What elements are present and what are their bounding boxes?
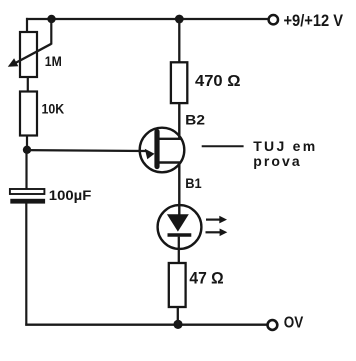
wire rail to resistor 470 <box>178 19 180 63</box>
wire resistor 47 to bottom rail <box>177 307 179 325</box>
svg-text:+9/+12 V: +9/+12 V <box>284 12 344 30</box>
node junction left <box>23 146 31 154</box>
resistor 47 body <box>169 263 186 307</box>
svg-text:10K: 10K <box>42 101 65 117</box>
potentiometer wiper diagonal <box>14 44 52 64</box>
LED light arrow upper head <box>219 216 227 224</box>
svg-text:prova: prova <box>253 153 300 169</box>
potentiometer wiper arrowhead <box>8 58 18 67</box>
UJT base bar <box>154 132 159 167</box>
wire left node down to capacitor <box>25 150 27 190</box>
LED cathode bar <box>168 233 192 236</box>
node junction bottom <box>173 320 182 329</box>
pointer line to label <box>202 145 244 147</box>
UJT base2 lead <box>157 103 180 139</box>
wire LED cathode down to resistor 47 <box>178 237 180 264</box>
svg-text:OV: OV <box>284 314 304 331</box>
terminal +9/+12V <box>269 15 278 24</box>
potentiometer 1M body <box>20 32 37 77</box>
LED light arrow lower line <box>206 231 221 233</box>
svg-text:1M: 1M <box>45 54 62 69</box>
transistor UJT circle <box>140 128 185 173</box>
wire wiper from rail junction <box>50 19 52 45</box>
UJT emitter arrowhead <box>145 149 155 160</box>
resistor 10K body <box>20 92 37 136</box>
wire bottom ground rail <box>25 324 266 326</box>
wire capacitor to bottom rail <box>25 203 27 326</box>
terminal 0V <box>268 320 278 330</box>
capacitor 100uF top plate <box>10 189 45 194</box>
LED circle <box>158 205 202 249</box>
capacitor 100uF bottom plate <box>10 199 45 204</box>
resistor 470 body <box>171 62 187 103</box>
wire emitter from left node <box>27 149 147 152</box>
node junction top-middle <box>175 15 184 24</box>
svg-text:B1: B1 <box>185 175 202 191</box>
LED anode triangle <box>167 214 189 231</box>
UJT base1 lead <box>157 163 180 216</box>
wire rail to potentiometer <box>26 18 28 33</box>
node junction top-left <box>47 15 55 23</box>
wire 10K to left node <box>26 136 28 151</box>
LED light arrow upper line <box>206 219 220 221</box>
wire top supply rail <box>26 18 269 20</box>
svg-text:100µF: 100µF <box>49 187 92 203</box>
svg-text:470 Ω: 470 Ω <box>195 73 241 90</box>
LED light arrow lower head <box>220 229 228 237</box>
wire potentiometer to resistor 10K <box>27 77 29 92</box>
svg-text:B2: B2 <box>185 111 205 127</box>
svg-text:47 Ω: 47 Ω <box>189 269 223 288</box>
